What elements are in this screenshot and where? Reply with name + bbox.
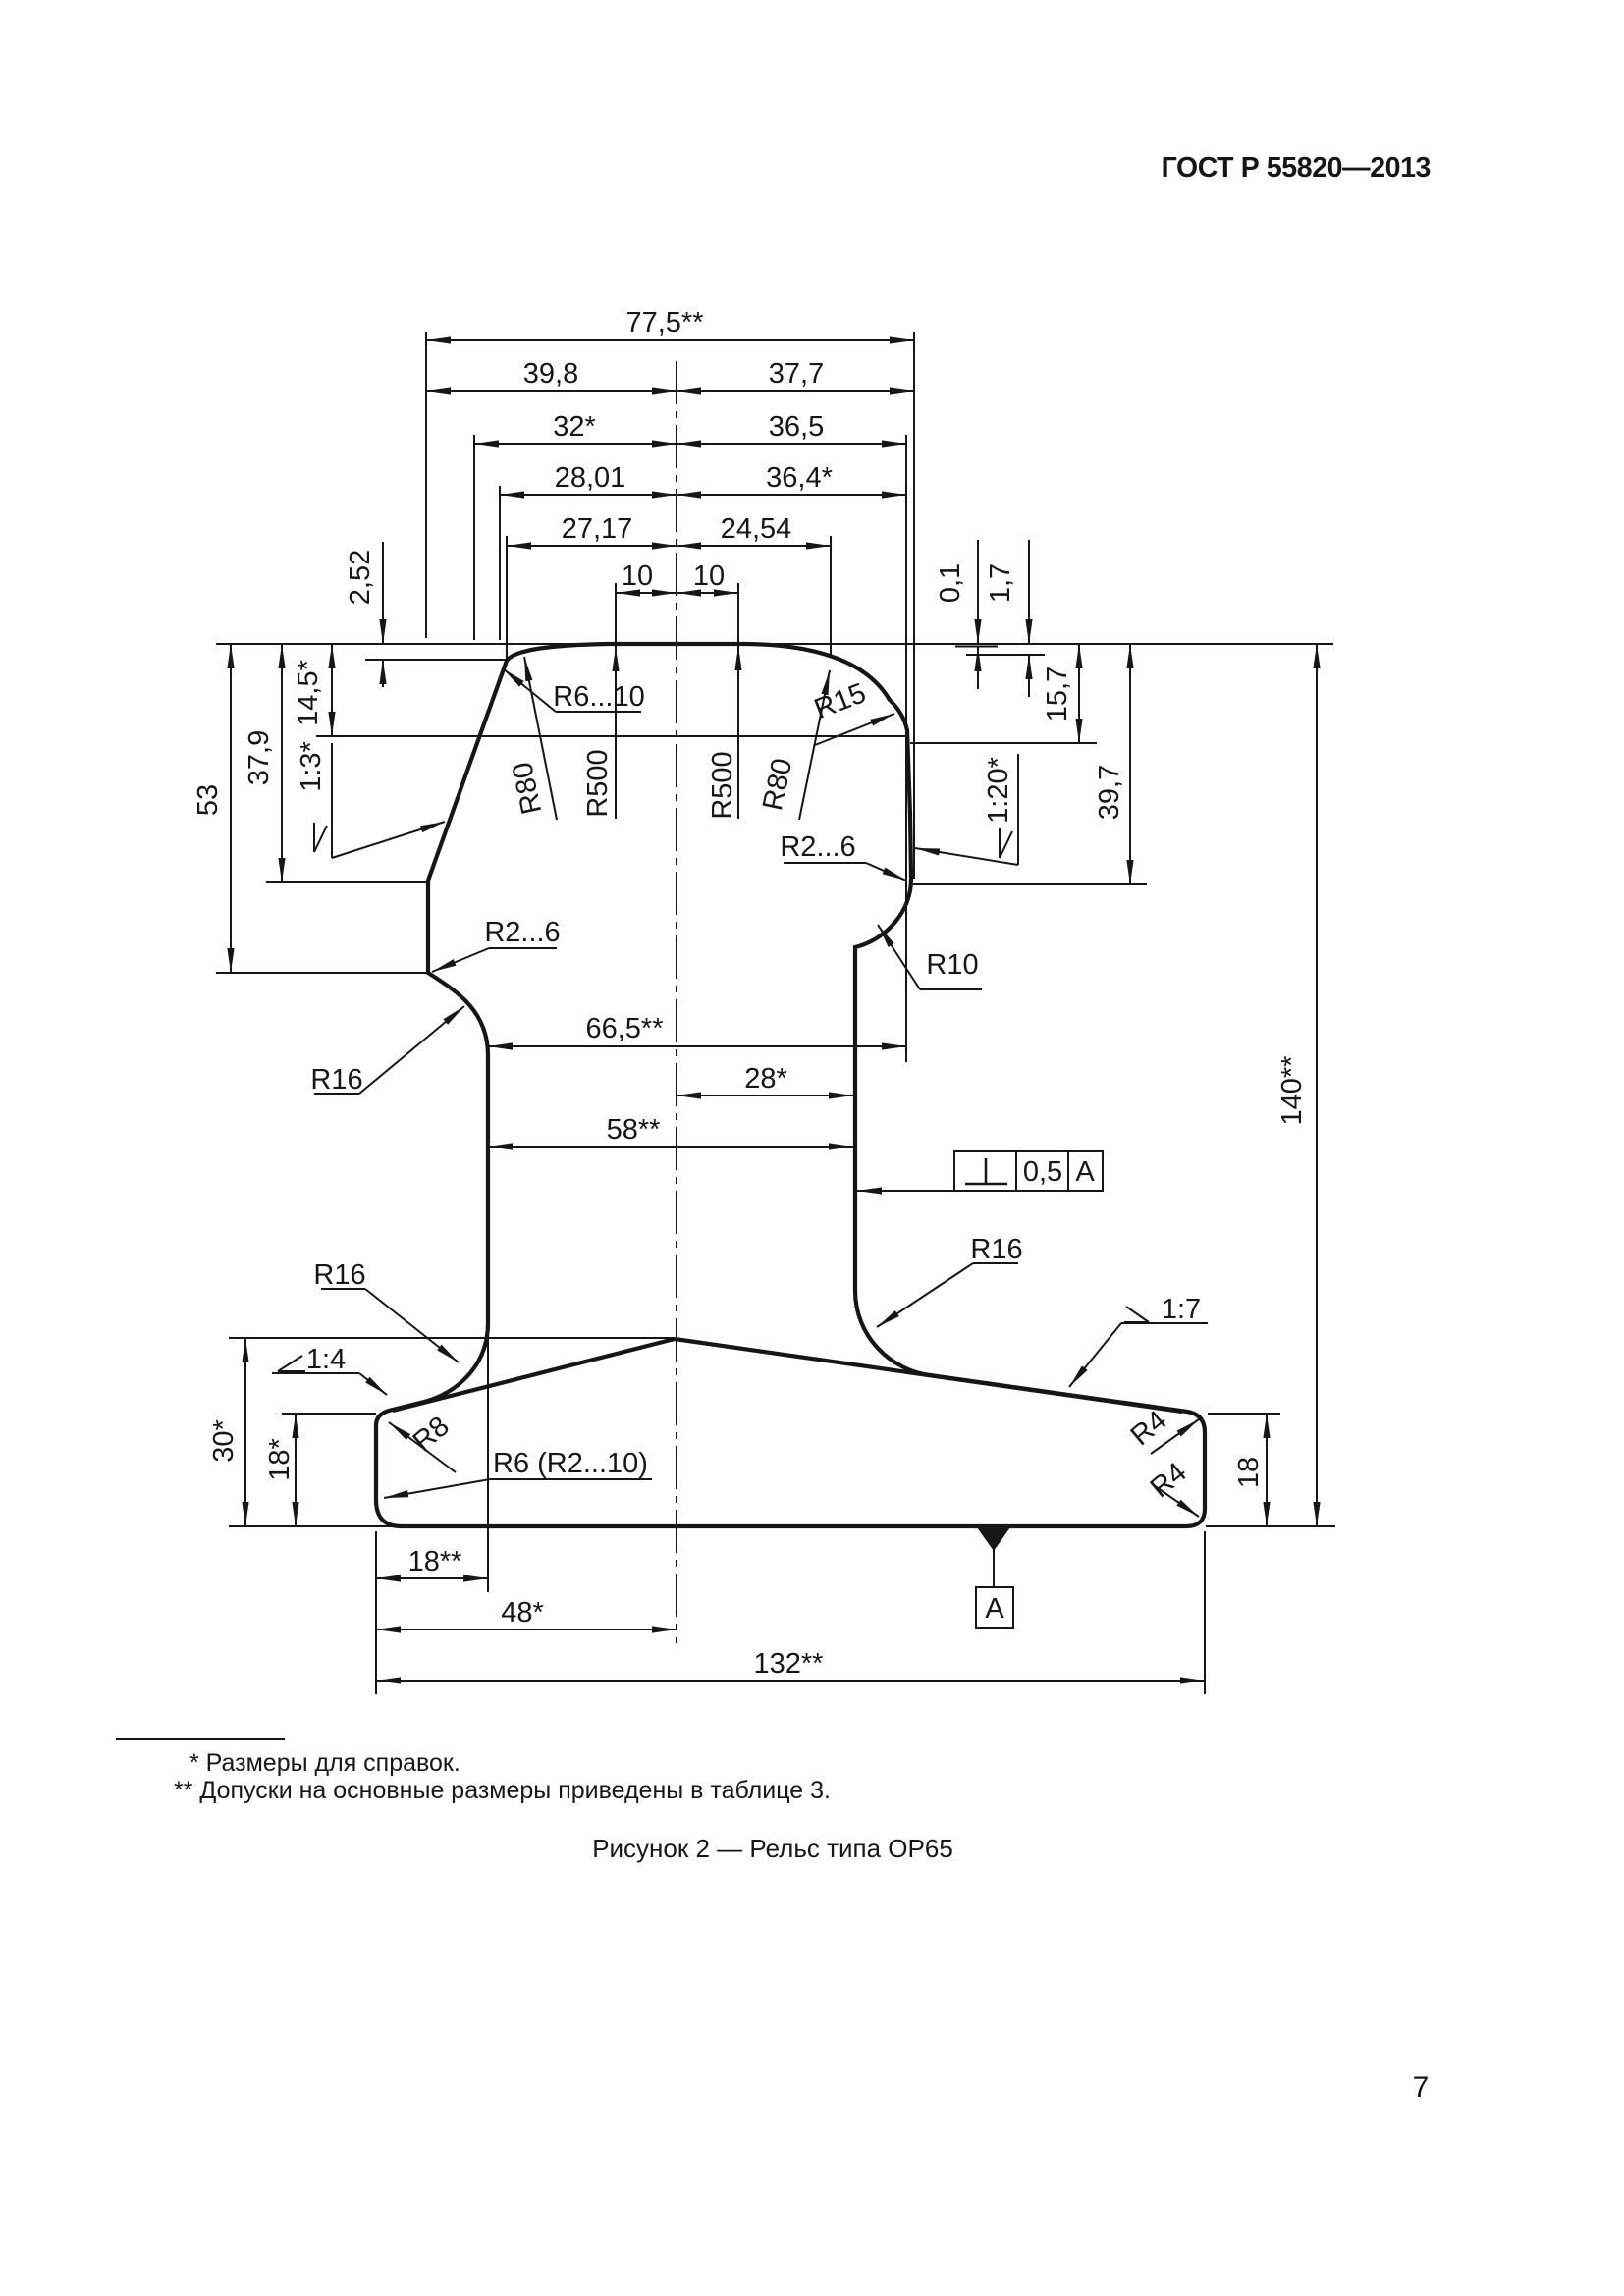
- svg-text:R2...6: R2...6: [484, 917, 560, 948]
- 15,7 reference line: [910, 742, 1097, 744]
- extension line 10 left / R500 leader: [615, 583, 617, 819]
- dim 18 bottom left: [376, 1577, 488, 1579]
- crown corner 0,1 short line: [955, 646, 998, 648]
- dim 140 vertical: [1316, 644, 1318, 1526]
- svg-text:36,5: 36,5: [769, 411, 824, 443]
- svg-text:R500: R500: [707, 751, 738, 819]
- 39,7 reference line: [913, 883, 1147, 885]
- dim 30 vertical: [244, 1338, 246, 1526]
- leader R15: [815, 714, 894, 745]
- foot bottom extension right: [1206, 1525, 1335, 1527]
- svg-text:Рисунок 2 — Рельс типа ОР65: Рисунок 2 — Рельс типа ОР65: [592, 1834, 953, 1863]
- leader R4 top: [1151, 1419, 1199, 1454]
- dim 48: [376, 1629, 677, 1630]
- svg-text:18**: 18**: [408, 1546, 462, 1577]
- leader R16 right: [973, 1262, 1018, 1264]
- svg-text:28,01: 28,01: [555, 462, 626, 494]
- extension line web left below foot: [487, 1327, 489, 1592]
- svg-text:48*: 48*: [501, 1597, 544, 1629]
- extension line foot left: [375, 1531, 377, 1694]
- svg-text:R16: R16: [313, 1259, 365, 1291]
- 37,9 reference line: [266, 881, 428, 883]
- foot bottom extension left: [229, 1525, 400, 1527]
- top surface extension line: [216, 643, 1333, 645]
- svg-text:* Размеры для справок.: * Размеры для справок.: [189, 1749, 460, 1777]
- extension line 36,5/66,5 right: [905, 435, 907, 1062]
- datum A triangle: [977, 1527, 1010, 1551]
- dim 53 vertical: [230, 644, 232, 973]
- svg-text:140**: 140**: [1276, 1056, 1308, 1126]
- leader R4 bottom: [1154, 1485, 1199, 1517]
- dim 27,17 / 24,54: [507, 545, 831, 547]
- svg-text:53: 53: [192, 784, 224, 816]
- dim 10 / 10: [616, 592, 738, 594]
- svg-text:R6 (R2...10): R6 (R2...10): [493, 1448, 648, 1479]
- extension line 10 right / R500 leader: [737, 583, 739, 819]
- dim 37,9 vertical: [281, 644, 283, 882]
- leader R6 (R2...10): [490, 1478, 652, 1480]
- dim 18 left vertical: [295, 1414, 297, 1526]
- leader slope 1:20: [1017, 754, 1019, 865]
- leader R2...6 right: [784, 862, 866, 864]
- leader R16 lower left: [321, 1288, 365, 1290]
- svg-text:27,17: 27,17: [562, 513, 633, 545]
- 2,52 reference line: [365, 659, 510, 661]
- leader R16 upper left: [314, 1093, 359, 1095]
- slope symbol 1:3: [314, 823, 327, 852]
- dim 2,52 arrows: [382, 542, 384, 644]
- svg-text:36,4*: 36,4*: [766, 462, 833, 494]
- dim 39,7 vertical: [1129, 644, 1131, 884]
- tolerance frame: [954, 1151, 1103, 1191]
- svg-text:15,7: 15,7: [1042, 667, 1073, 721]
- tolerance frame leader: [857, 1190, 954, 1192]
- leader slope 1:7: [1121, 1322, 1208, 1324]
- extension line 77,5 left: [425, 332, 427, 638]
- 30 reference line: [229, 1337, 675, 1339]
- leader R80 right: [799, 670, 830, 820]
- perpendicularity symbol: [965, 1158, 1007, 1184]
- leader R2...6 left: [489, 947, 557, 949]
- svg-text:ГОСТ Р 55820—2013: ГОСТ Р 55820—2013: [1162, 152, 1431, 184]
- dim 77,5: [426, 339, 914, 341]
- rail profile outline (heavy): [376, 644, 1205, 1526]
- svg-text:7: 7: [1413, 2071, 1430, 2104]
- svg-text:R16: R16: [970, 1234, 1022, 1265]
- centerline (dash-dot): [676, 361, 677, 1643]
- 53 reference line: [216, 972, 428, 974]
- foot top slope 1:4 (left): [393, 1339, 675, 1411]
- leader slope 1:3: [331, 743, 333, 858]
- svg-text:14,5*: 14,5*: [293, 660, 324, 726]
- dim 14,5 vertical: [331, 644, 333, 736]
- svg-text:77,5**: 77,5**: [625, 307, 703, 339]
- svg-text:39,8: 39,8: [523, 358, 578, 390]
- svg-text:1:3*: 1:3*: [296, 741, 327, 792]
- dim 39,8 / 37,7: [426, 390, 914, 392]
- extension line 27,17 left: [506, 536, 508, 660]
- datum A stem: [993, 1548, 995, 1587]
- leader R80 left: [524, 657, 557, 820]
- svg-text:1:4: 1:4: [306, 1344, 346, 1375]
- rail head and web outline: [376, 644, 1205, 1526]
- svg-text:132**: 132**: [754, 1648, 824, 1680]
- svg-text:A: A: [1075, 1156, 1095, 1188]
- slope symbol 1:20: [1000, 828, 1012, 858]
- svg-text:1,7: 1,7: [985, 563, 1016, 603]
- svg-text:0,1: 0,1: [935, 563, 966, 603]
- leader R6...10: [556, 711, 641, 713]
- svg-text:2,52: 2,52: [345, 550, 376, 605]
- dim 58: [488, 1146, 853, 1148]
- dim 32 / 36,5: [474, 443, 906, 445]
- foot top slope 1:7 (right): [675, 1339, 1182, 1412]
- dim 28: [677, 1095, 853, 1096]
- datum A box: [976, 1587, 1013, 1628]
- svg-text:18: 18: [1233, 1457, 1265, 1488]
- extension line 28,01 left: [499, 486, 501, 640]
- 14,5 reference line: [316, 735, 905, 737]
- svg-text:10: 10: [622, 561, 653, 592]
- svg-text:** Допуски на основные размеры: ** Допуски на основные размеры приведены…: [174, 1777, 831, 1804]
- svg-text:37,7: 37,7: [769, 358, 824, 390]
- footnote separator: [116, 1738, 285, 1740]
- svg-text:R16: R16: [310, 1064, 362, 1095]
- svg-text:66,5**: 66,5**: [585, 1013, 663, 1044]
- svg-text:R10: R10: [926, 949, 978, 981]
- slope symbol 1:4: [278, 1356, 305, 1371]
- svg-text:37,9: 37,9: [244, 730, 275, 785]
- extension line 24,54 right: [830, 536, 832, 656]
- svg-text:58**: 58**: [607, 1114, 661, 1146]
- extension line 32 left: [473, 435, 475, 640]
- dimension texts horizontal: [306, 307, 1201, 1680]
- svg-text:1:7: 1:7: [1162, 1294, 1201, 1325]
- svg-text:A: A: [985, 1593, 1004, 1625]
- svg-text:1:20*: 1:20*: [983, 757, 1014, 824]
- dim 28,01 / 36,4: [500, 494, 906, 496]
- extension line 77,5/37,7 right: [913, 332, 915, 879]
- svg-text:28*: 28*: [744, 1063, 787, 1095]
- extension line foot right: [1204, 1531, 1206, 1694]
- leader R8: [389, 1422, 456, 1472]
- dim 15,7 vertical: [1078, 644, 1080, 743]
- svg-text:24,54: 24,54: [721, 513, 792, 545]
- svg-text:30*: 30*: [208, 1419, 240, 1463]
- svg-text:R6...10: R6...10: [553, 681, 645, 713]
- slope symbol 1:7: [1124, 1307, 1149, 1322]
- 18 left reference line: [282, 1413, 376, 1415]
- svg-text:R2...6: R2...6: [780, 831, 855, 863]
- dim 132: [376, 1680, 1205, 1682]
- rotated dimension texts: [192, 550, 1308, 1505]
- leader R10: [920, 988, 982, 990]
- svg-text:39,7: 39,7: [1094, 765, 1125, 820]
- leader slope 1:4: [272, 1372, 359, 1374]
- dim 1,7 arrows: [1028, 540, 1030, 644]
- 18 right reference line: [1208, 1413, 1280, 1415]
- svg-text:10: 10: [693, 561, 725, 592]
- svg-text:18*: 18*: [264, 1438, 296, 1481]
- 1,7 reference line: [966, 654, 1045, 656]
- dim 18 right vertical: [1266, 1414, 1268, 1526]
- svg-text:32*: 32*: [553, 411, 596, 443]
- dim 0,1 arrows: [977, 540, 979, 644]
- svg-text:0,5: 0,5: [1023, 1156, 1062, 1188]
- svg-text:R500: R500: [582, 749, 614, 817]
- dim 66,5: [488, 1045, 906, 1047]
